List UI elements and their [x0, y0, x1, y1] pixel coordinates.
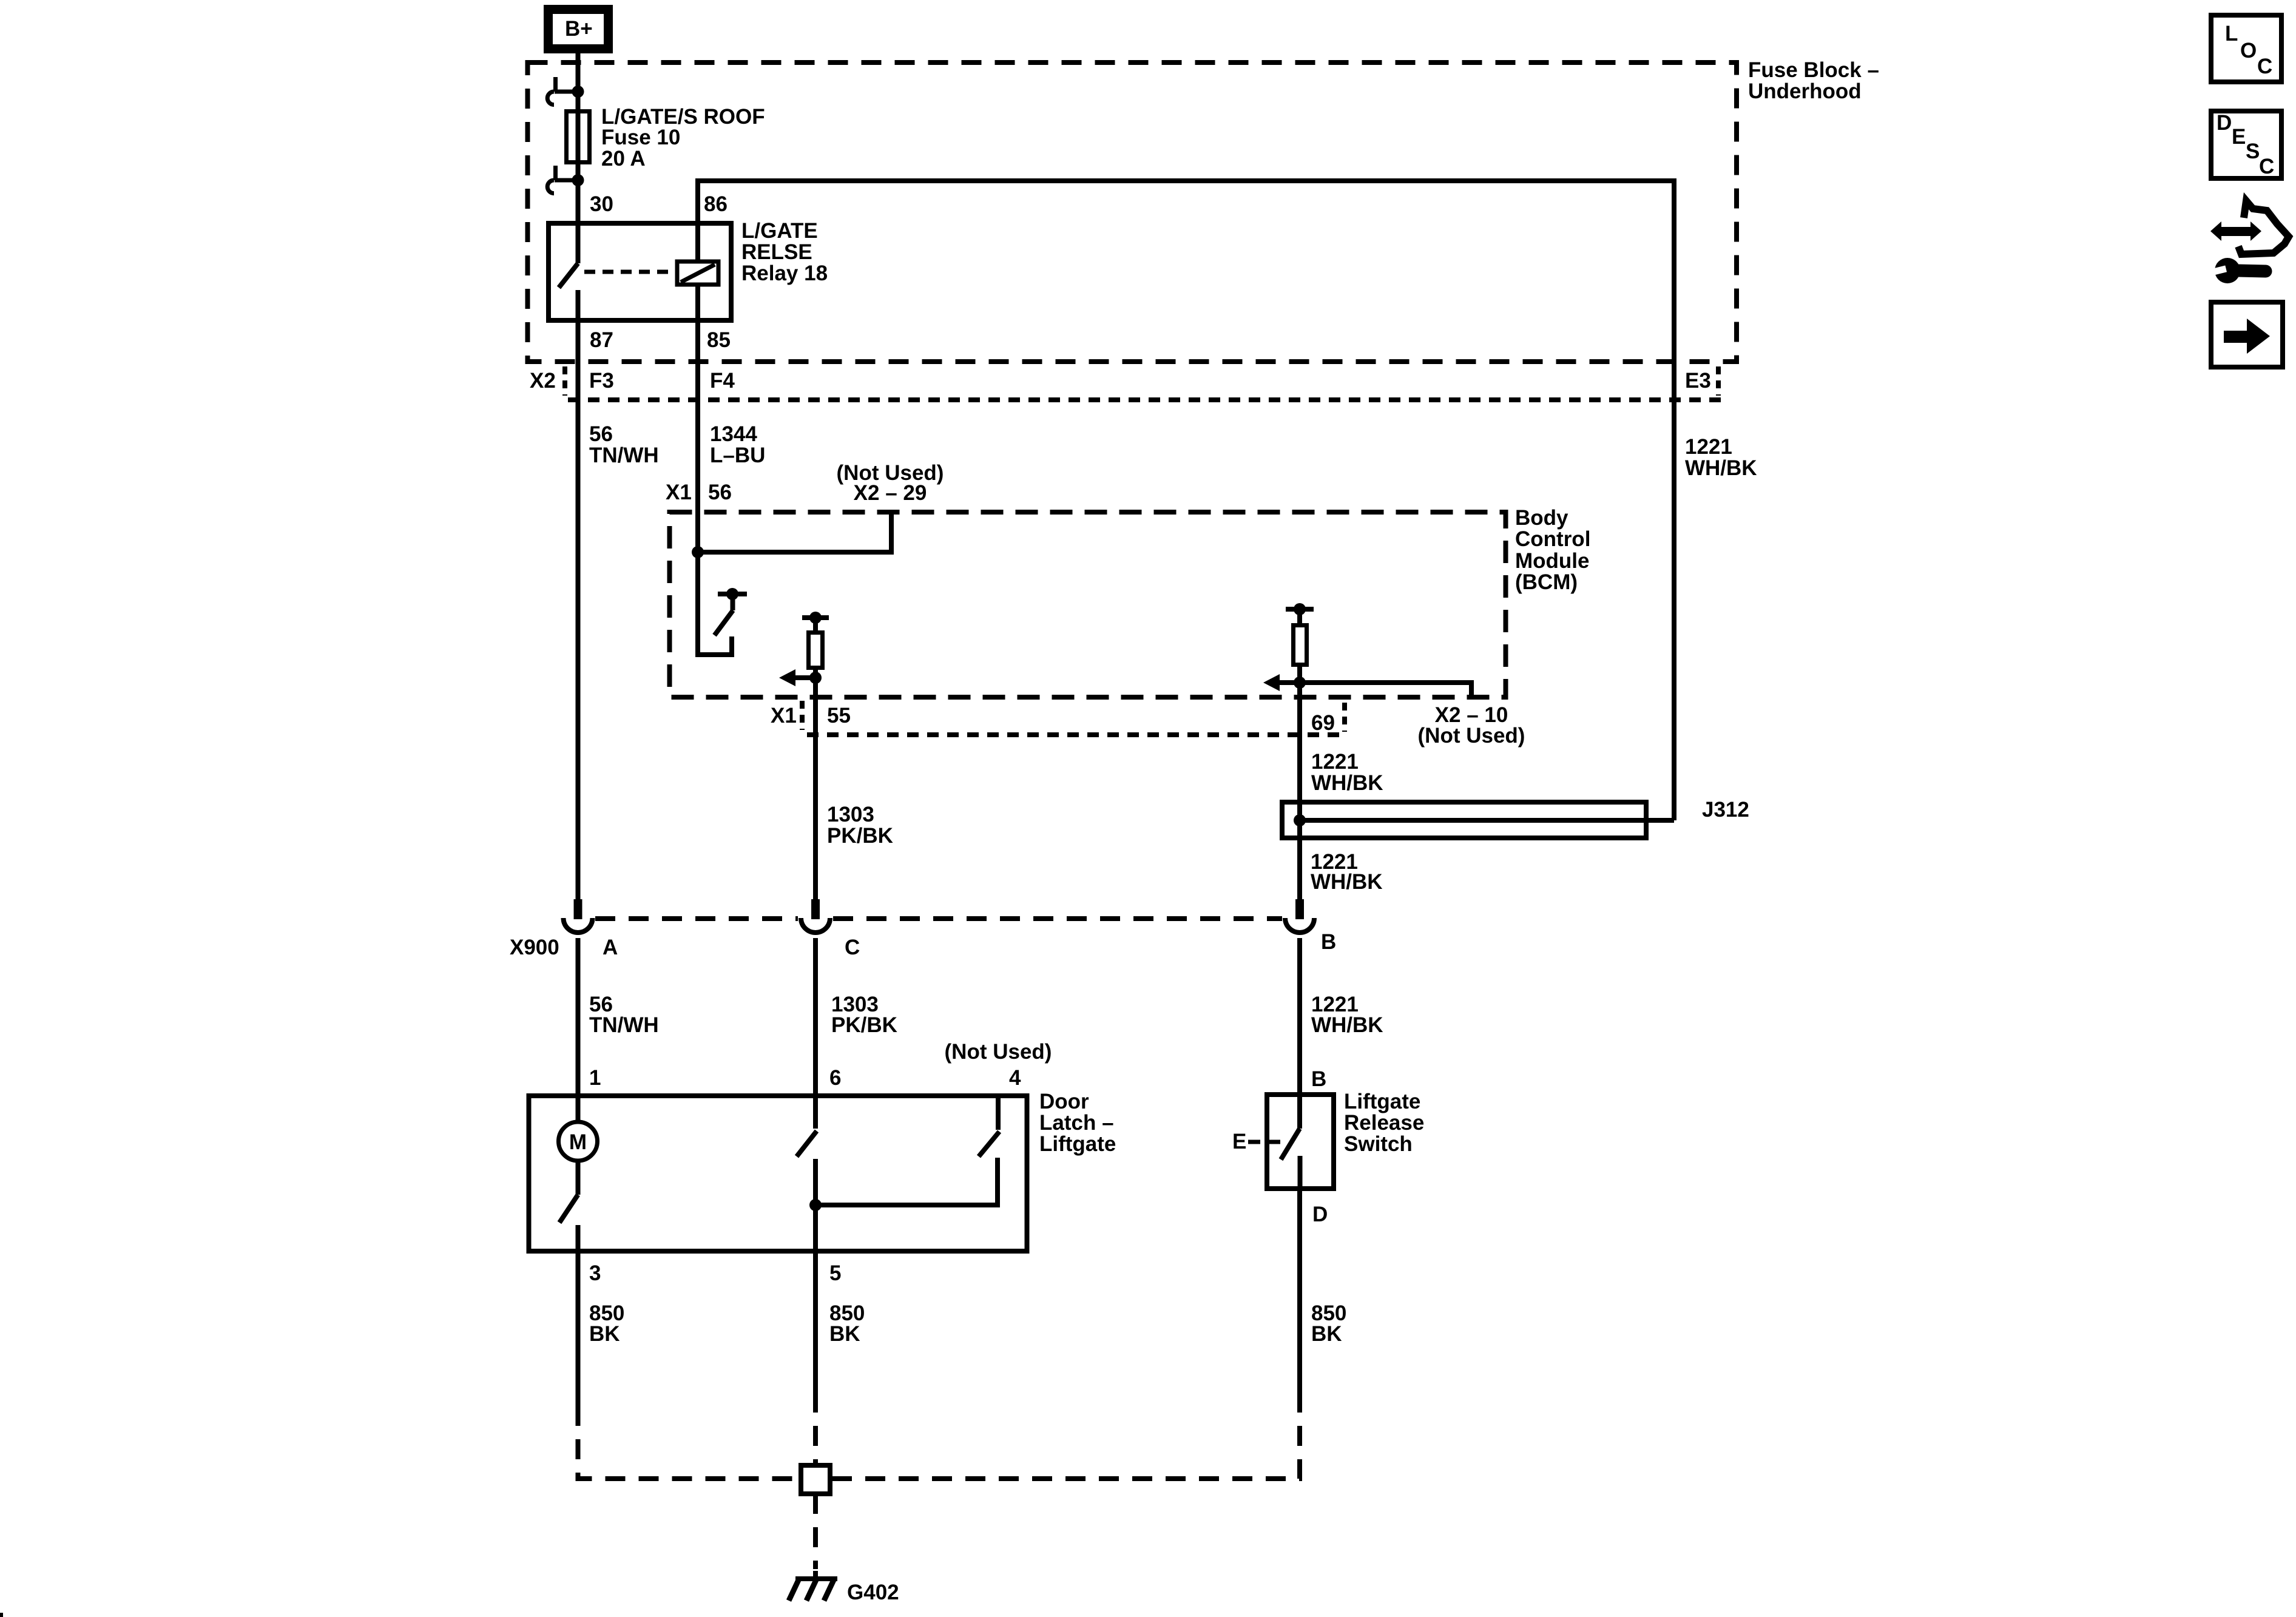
page corner mark	[0, 1613, 3, 1617]
X900 labels	[510, 930, 1336, 959]
icon DESC box	[2211, 111, 2281, 178]
svg-text:3: 3	[589, 1261, 601, 1285]
connector X900-B pin	[1285, 899, 1314, 933]
svg-text:1: 1	[589, 1066, 601, 1090]
fine dotted line BCM row	[807, 732, 1345, 737]
svg-text:D: D	[1312, 1203, 1328, 1226]
svg-text:X2: X2	[530, 369, 556, 393]
junction dot node 56	[692, 546, 704, 558]
wire pin 86 loop to E3 and down to J312	[698, 181, 1674, 820]
E actuator dashed link	[1248, 1140, 1281, 1144]
svg-text:RELSE: RELSE	[741, 240, 812, 264]
svg-text:(Not Used): (Not Used)	[1418, 724, 1525, 748]
svg-text:87: 87	[590, 328, 613, 352]
relay switch contact 30-87	[559, 221, 578, 323]
connector X1 55 row	[771, 704, 851, 727]
pin labels 1 6 4	[589, 1066, 1021, 1090]
svg-text:(BCM): (BCM)	[1515, 570, 1578, 594]
BCM driver switch	[715, 588, 748, 635]
svg-text:WH/BK: WH/BK	[1311, 870, 1383, 894]
svg-text:Liftgate: Liftgate	[1344, 1090, 1420, 1113]
svg-text:G402: G402	[847, 1581, 899, 1604]
icon hand with double arrow	[2210, 201, 2289, 254]
svg-text:Door: Door	[1039, 1090, 1089, 1113]
svg-text:6: 6	[829, 1066, 841, 1090]
svg-text:WH/BK: WH/BK	[1311, 771, 1383, 795]
X2-29 stub wire	[698, 512, 891, 552]
wire D dashed to ground	[830, 1393, 1300, 1479]
svg-text:85: 85	[707, 328, 731, 352]
svg-text:Latch –: Latch –	[1039, 1111, 1114, 1135]
motor M	[559, 1093, 598, 1161]
svg-text:E: E	[1232, 1130, 1246, 1153]
svg-text:Switch: Switch	[1344, 1132, 1413, 1156]
svg-text:B: B	[1321, 930, 1336, 954]
svg-text:B: B	[1311, 1067, 1326, 1091]
relay coil	[677, 262, 718, 285]
svg-text:Release: Release	[1344, 1111, 1424, 1135]
svg-text:56: 56	[589, 422, 613, 446]
wire D down	[1297, 1191, 1302, 1393]
Body Control Module BCM dashed box	[670, 512, 1506, 697]
svg-text:1221: 1221	[1311, 750, 1359, 774]
svg-text:Underhood: Underhood	[1748, 79, 1862, 103]
Liftgate Release Switch box	[1267, 1095, 1334, 1189]
svg-text:5: 5	[829, 1261, 841, 1285]
svg-text:TN/WH: TN/WH	[589, 1013, 659, 1037]
svg-text:(Not Used): (Not Used)	[945, 1040, 1052, 1064]
wire relay coil stubs 86-85	[695, 221, 700, 323]
svg-text:F3: F3	[589, 369, 614, 393]
ground symbol G402	[789, 1571, 837, 1601]
wire pin 3 dashed to ground	[578, 1406, 802, 1479]
relay L/GATE RELSE Relay 18 box	[549, 223, 731, 320]
svg-text:A: A	[603, 936, 618, 959]
svg-text:Relay 18: Relay 18	[741, 262, 828, 285]
splice J312 box	[1282, 802, 1646, 838]
wire pin 87 down to X900-A	[576, 323, 581, 899]
svg-text:M: M	[569, 1130, 587, 1154]
connector X900-A pin	[564, 899, 593, 933]
wire pin 69 down to J312 and X900-B	[1297, 667, 1302, 899]
svg-text:BK: BK	[829, 1322, 860, 1346]
wire A to door latch	[576, 938, 581, 1093]
junction dot J312	[1294, 814, 1306, 826]
svg-text:69: 69	[1311, 711, 1335, 735]
E3 separator dotted	[1716, 366, 1721, 396]
svg-text:BK: BK	[1311, 1322, 1342, 1346]
svg-text:1344: 1344	[710, 422, 757, 446]
icon wrench	[2209, 258, 2266, 283]
door latch switch pin 4	[979, 1093, 999, 1156]
svg-text:TN/WH: TN/WH	[589, 444, 659, 467]
connector X900 dashed line	[595, 916, 1282, 921]
ground splice square	[801, 1465, 830, 1494]
svg-text:Body: Body	[1515, 506, 1568, 530]
svg-text:E: E	[2232, 125, 2246, 149]
svg-text:O: O	[2240, 39, 2257, 62]
connector row fine dotted line	[568, 397, 1722, 402]
relay mechanical link dashed	[584, 270, 677, 274]
junction dot at fuse top	[572, 86, 584, 98]
power symbol B+	[544, 5, 613, 53]
wire B+ to relay pin 30	[576, 53, 581, 221]
svg-text:B+: B+	[565, 17, 593, 41]
svg-text:PK/BK: PK/BK	[827, 824, 893, 848]
wire pin 5 down	[813, 1254, 818, 1393]
svg-text:J312: J312	[1702, 798, 1749, 822]
icon arrow box	[2211, 302, 2283, 367]
svg-text:BK: BK	[589, 1322, 620, 1346]
wire C to door latch	[813, 938, 818, 1093]
Door Latch - Liftgate box	[529, 1096, 1027, 1251]
svg-text:L: L	[2225, 22, 2238, 46]
wire pin 85 down into BCM to switch contact	[698, 323, 732, 655]
svg-text:20 A: 20 A	[601, 147, 646, 170]
pin labels 3 5	[589, 1261, 841, 1285]
motor switch	[559, 1162, 578, 1254]
svg-text:1303: 1303	[827, 803, 874, 826]
svg-text:X1: X1	[666, 481, 692, 504]
svg-text:30: 30	[590, 192, 613, 216]
wire B to liftgate switch	[1297, 938, 1302, 1093]
arrow left at pin 55	[779, 669, 815, 686]
connector X900-C pin	[801, 899, 830, 933]
svg-text:Fuse 10: Fuse 10	[601, 126, 680, 149]
svg-text:X2 – 29: X2 – 29	[854, 481, 927, 505]
junction dot pin 6	[809, 1199, 822, 1211]
svg-text:86: 86	[704, 192, 728, 216]
svg-text:Fuse Block –: Fuse Block –	[1748, 58, 1879, 82]
svg-text:55: 55	[827, 704, 851, 727]
fuse clip top	[547, 77, 578, 105]
svg-text:Control: Control	[1515, 527, 1590, 551]
junction dot pin 55	[809, 672, 822, 684]
BCM resistor R2 pin 69	[1286, 603, 1314, 665]
fuse clip bottom	[547, 166, 578, 194]
svg-text:WH/BK: WH/BK	[1685, 456, 1757, 480]
arrow left at pin 69	[1263, 674, 1300, 691]
svg-text:L/GATE: L/GATE	[741, 219, 818, 243]
svg-text:C: C	[2257, 55, 2272, 78]
ground dashed stub	[813, 1494, 818, 1569]
wire pin 5 dashed to ground	[813, 1393, 818, 1465]
svg-text:X900: X900	[510, 936, 559, 959]
svg-text:C: C	[845, 936, 860, 959]
svg-text:X1: X1	[771, 704, 797, 727]
X2-10 stub wire	[1300, 683, 1471, 697]
X1 separator dotted	[800, 701, 805, 730]
liftgate switch contact	[1281, 1093, 1300, 1191]
svg-text:L–BU: L–BU	[710, 444, 765, 467]
svg-text:S: S	[2246, 140, 2260, 163]
wire pin 55 down to X900-C	[813, 670, 818, 899]
svg-text:E3: E3	[1685, 369, 1711, 393]
icon LOC box	[2211, 15, 2281, 82]
Fuse Block - Underhood dashed box	[528, 62, 1737, 362]
svg-text:C: C	[2259, 155, 2274, 178]
junction dot at fuse bottom	[572, 174, 584, 186]
svg-text:PK/BK: PK/BK	[831, 1013, 897, 1037]
svg-text:4: 4	[1009, 1066, 1021, 1090]
svg-text:56: 56	[708, 481, 732, 504]
svg-text:F4: F4	[710, 369, 735, 393]
69 separator dotted	[1342, 703, 1347, 732]
fuse L/GATE/S ROOF Fuse 10 20 A	[567, 112, 590, 163]
BCM resistor R1 pin 55	[802, 612, 829, 668]
X2 separator dotted	[562, 366, 567, 396]
svg-text:Module: Module	[1515, 549, 1589, 573]
svg-text:WH/BK: WH/BK	[1311, 1013, 1383, 1037]
cross link wire pin6-pin4	[815, 1158, 998, 1205]
junction dot pin 69	[1294, 677, 1306, 689]
svg-text:D: D	[2217, 111, 2232, 135]
connector X2 row labels	[530, 369, 1711, 393]
wire pin 3 down	[576, 1254, 581, 1406]
J312 internal wire	[1300, 818, 1674, 823]
svg-text:Liftgate: Liftgate	[1039, 1132, 1116, 1156]
door latch switch pin 6	[797, 1093, 817, 1254]
svg-text:1221: 1221	[1685, 435, 1732, 459]
